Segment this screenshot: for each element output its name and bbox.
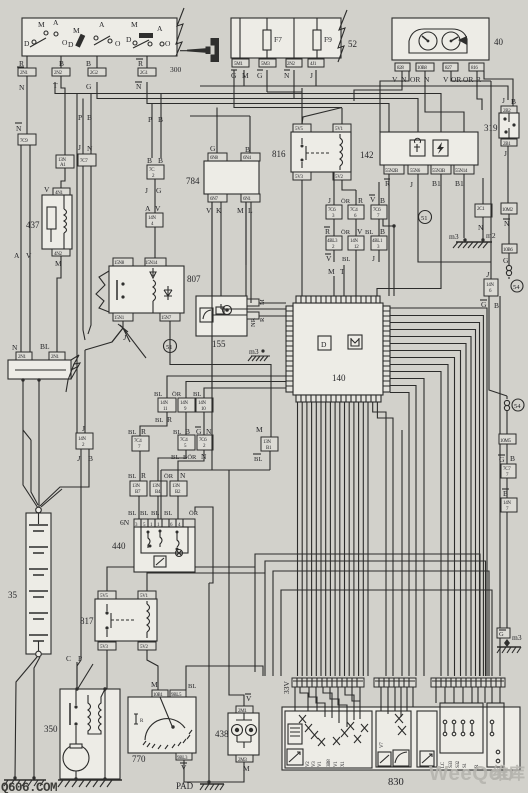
svg-text:V3: V3 [312,761,317,767]
wire P down to 7C7 [82,99,84,155]
wire fan right of 140 [390,308,487,676]
connector 13N B2 [170,481,187,496]
svg-text:B: B [147,156,152,165]
svg-text:14N: 14N [160,401,168,406]
connector 10M5 [506,410,508,434]
wire long x77 [76,94,78,434]
connector 2C1 [475,204,492,217]
svg-text:7C9: 7C9 [20,139,28,144]
svg-text:5V2: 5V2 [335,175,344,180]
wire 14N4 down to 807 [154,227,156,258]
svg-text:7C4: 7C4 [350,208,358,213]
fuse box 52 [231,18,341,58]
svg-text:4BL3: 4BL3 [327,239,338,244]
svg-text:ÖR: ÖR [172,391,182,398]
top bus wire M from fuse 5M1 [200,70,508,100]
svg-text:G: G [156,186,162,195]
svg-text:OR: OR [410,75,420,84]
svg-text:V: V [326,254,332,263]
ground G m3 right [497,628,522,653]
fuse F7 [263,30,271,50]
wires 830 row3 stubs [436,687,500,703]
wire P2 down [151,104,153,159]
svg-text:5V1: 5V1 [140,594,149,599]
wire B into 784 [249,116,251,153]
svg-text:350: 350 [44,724,58,734]
svg-text:B2: B2 [175,490,181,495]
svg-text:BL: BL [193,391,201,398]
svg-text:BL: BL [140,510,148,517]
svg-text:A: A [157,24,163,33]
svg-text:14N: 14N [148,216,156,221]
svg-text:BL: BL [128,473,136,480]
connector 5M3 [259,59,276,67]
wire cluster V down-left [354,71,402,101]
svg-text:6N: 6N [120,518,130,527]
wires 830 row1 stubs [295,687,360,727]
svg-text:BL: BL [154,391,162,398]
svg-text:R: R [141,471,146,480]
connector 14N4 [146,213,163,227]
svg-text:54: 54 [513,284,520,291]
wire B down mid [88,166,91,334]
svg-text:B: B [494,301,499,310]
svg-text:54: 54 [514,403,521,410]
ignition switch assembly 300 [22,18,177,56]
svg-text:维库: 维库 [492,763,526,783]
connector 12N2 [286,59,302,67]
wire G down right-rail [489,296,507,396]
svg-text:B: B [380,227,385,236]
svg-text:440: 440 [112,541,126,551]
svg-text:2G1: 2G1 [140,71,149,76]
svg-text:R: R [138,59,143,68]
wire 784V long down [211,202,213,470]
wire break right of 52 [338,10,347,62]
wire bundle below 140 [298,402,403,676]
svg-text:5V1: 5V1 [335,127,344,132]
connector 13N B7 [130,481,147,496]
wire C P to 350 [77,662,93,690]
top bus wire G [97,82,418,167]
svg-text:BL: BL [365,229,373,236]
wire 10M2 down [508,214,510,244]
svg-text:437: 437 [26,220,40,230]
svg-text:14N: 14N [180,401,188,406]
svg-text:55N14: 55N14 [455,169,468,174]
wire cluster V2 down [451,71,491,81]
svg-text:2C1: 2C1 [477,207,485,212]
svg-text:A1: A1 [60,163,66,168]
wire 7C2 to 14N4 [154,179,156,213]
svg-text:2B1: 2B1 [503,142,511,147]
svg-text:33V: 33V [282,681,291,695]
wire B down right-rail [499,296,501,676]
connector 7C2 [147,165,164,179]
svg-text:A: A [14,251,20,260]
connector block 830 [282,678,520,770]
svg-text:10M5: 10M5 [500,439,512,444]
wire cluster N down [380,71,409,132]
svg-text:7C6: 7C6 [328,208,336,213]
instrument cluster 40 [392,18,489,60]
svg-text:G: G [210,144,216,153]
connector 7C6b [197,435,213,450]
svg-text:5V5: 5V5 [295,127,304,132]
top bus wire N [147,82,389,167]
svg-text:2N1: 2N1 [20,71,29,76]
control unit 140 [286,296,390,402]
svg-text:35: 35 [8,590,18,600]
wire 2C1 to ground [482,217,484,240]
svg-text:R: R [167,415,172,424]
svg-text:D: D [321,340,327,349]
svg-text:F9: F9 [324,35,332,44]
switch unit 319 [484,113,519,138]
svg-text:4J1: 4J1 [310,62,317,67]
svg-text:BL: BL [164,510,172,517]
top bus wire G2 from fuse 5M3 [266,70,268,92]
ground m3 m2 [449,231,496,248]
830 tab row 3 [431,678,505,687]
svg-text:6N8: 6N8 [210,156,219,161]
wire A long left [20,145,22,360]
top bus wire T [55,82,441,167]
svg-text:J: J [310,71,313,80]
svg-text:M: M [131,20,138,29]
svg-text:ÖR: ÖR [189,510,199,517]
node 54 circle upper [511,280,523,292]
wire cluster OR down [425,71,464,132]
svg-text:J: J [328,196,331,205]
svg-text:Q606.COM: Q606.COM [1,781,57,793]
fuse F9 [313,30,321,50]
wire 14N7 down to ground [506,512,508,628]
svg-text:J: J [410,180,413,189]
ground m3 at 155 [248,347,270,361]
svg-text:6N1: 6N1 [243,197,252,202]
svg-text:B7: B7 [135,490,141,495]
svg-text:10M2: 10M2 [502,208,514,213]
component 142 [360,132,478,189]
wire fuse N to 816 [234,70,342,124]
svg-text:M: M [151,680,158,689]
svg-text:7C4: 7C4 [180,438,188,443]
svg-text:770: 770 [132,754,146,764]
wire 784 K down [220,202,222,304]
svg-text:C: C [66,654,71,663]
svg-text:A: A [53,18,59,27]
svg-text:5V5: 5V5 [100,594,109,599]
wires 13NB to 440 [139,496,178,519]
svg-text:55N3B: 55N3B [432,169,446,174]
horn / pointer icon [180,38,219,62]
svg-text:V: V [392,75,398,84]
svg-text:5M1: 5M1 [234,62,243,67]
connector 7C4b [178,435,195,450]
wire 437 to BL tab [57,256,61,353]
svg-text:2N2: 2N2 [287,62,296,67]
wire 816 5V3 down [301,180,303,296]
wire 142 R down [388,174,390,296]
830 tab row 2 [374,678,416,687]
svg-text:784: 784 [186,176,200,186]
svg-text:15N14: 15N14 [145,261,158,266]
connector 13N B4 [150,481,167,496]
connector 7C7 [78,154,96,166]
svg-text:V: V [206,206,212,215]
svg-text:BL: BL [188,683,196,690]
svg-text:10B6: 10B6 [503,248,513,253]
svg-text:14N: 14N [503,501,511,506]
svg-text:N: N [136,82,142,91]
wire B feed 784 from bus [190,115,250,117]
wires 830 row2 stubs [381,687,413,717]
wire M down to 140 [333,276,335,296]
wire 161 down to 440 [160,470,162,519]
svg-text:R: R [358,196,363,205]
node 51 circle left [164,340,177,353]
connector 14N7 [506,478,508,498]
fuel gauge sender 770 [128,680,196,772]
wire 142 B1b down to ground [463,174,465,238]
battery 35 [8,489,62,657]
svg-text:OR: OR [463,75,473,84]
svg-text:14N: 14N [78,437,86,442]
svg-text:J: J [372,254,375,263]
connector 2B1 319 [501,139,517,146]
svg-text:807: 807 [187,274,201,284]
wire 784 V down [211,202,213,388]
830 relay contacts D [440,703,483,753]
wire fuse J down [267,70,316,124]
svg-text:X1: X1 [341,761,346,767]
svg-text:816: 816 [471,66,478,71]
inline connector pair lower [506,396,508,399]
svg-text:G: G [499,631,504,638]
svg-text:140: 140 [332,373,346,383]
svg-text:142: 142 [360,150,374,160]
svg-text:V2: V2 [306,761,311,767]
wire cluster OR2 corner to 319 [477,71,482,110]
junction arrow under 807 [112,321,130,342]
wire break symbol at 300 [176,8,184,56]
wire 7C4a down [139,451,141,481]
starter motor 350 [44,687,120,779]
svg-text:ÖR: ÖR [341,229,351,236]
svg-text:V: V [246,694,252,703]
svg-text:B: B [158,156,163,165]
svg-text:14N: 14N [486,283,494,288]
svg-text:5V3: 5V3 [100,645,109,650]
svg-text:J: J [502,96,505,105]
svg-text:P: P [78,654,82,663]
wire 438 to PAD [209,762,244,782]
svg-text:N: N [87,144,93,153]
svg-text:M: M [73,26,80,35]
connector 14J1 [308,59,324,67]
connector 7C4a [132,436,149,451]
svg-text:51: 51 [166,344,173,351]
svg-text:J: J [145,186,148,195]
wire T down to 13N A1 [61,76,65,155]
svg-text:13N: 13N [132,484,140,489]
svg-text:V1: V1 [318,761,323,767]
svg-text:G: G [503,256,509,265]
svg-text:816: 816 [272,149,286,159]
svg-text:V: V [44,185,50,194]
svg-text:5M3: 5M3 [261,62,270,67]
svg-text:827: 827 [445,66,452,71]
wire 784 M down [245,202,247,265]
svg-text:BL: BL [151,510,159,517]
wire 2C1 up [482,178,484,204]
svg-text:M: M [256,425,263,434]
component 784 [186,144,260,215]
svg-text:V: V [443,75,449,84]
connector 13N A1 [56,155,74,168]
svg-text:52: 52 [348,39,357,49]
830 sub box A [285,711,372,768]
connector block row2 [326,236,342,250]
relay 817 [80,591,157,650]
svg-text:2G2: 2G2 [90,71,99,76]
svg-text:51: 51 [421,215,428,222]
svg-text:B: B [380,196,385,205]
wire J into 14N6 [490,81,492,279]
svg-text:V7: V7 [380,742,385,748]
svg-text:N: N [16,124,22,133]
connector 816b [469,63,484,71]
interior lamp 438 [215,694,259,773]
wire N into 7C9 [26,76,28,134]
830 outer box [282,707,520,770]
svg-text:13N: 13N [172,484,180,489]
svg-text:O: O [165,39,171,48]
svg-text:BL: BL [40,342,50,351]
svg-text:830: 830 [388,777,404,788]
svg-text:D: D [68,40,74,49]
svg-text:15N1: 15N1 [114,316,125,321]
svg-text:M: M [242,71,249,80]
svg-text:M: M [38,20,45,29]
connector 10M2 [501,203,517,214]
svg-text:G: G [86,82,92,91]
wire B down right of 7C7 [90,94,92,155]
connector 827 [443,63,458,71]
svg-text:BL: BL [128,429,136,436]
component 437 [26,185,72,268]
svg-text:5V2: 5V2 [140,645,149,650]
wire 440 right up OR [195,507,213,583]
relay 807 [96,258,201,321]
830 sub box B [376,711,411,767]
wire 5V1 feed [341,108,343,124]
svg-text:V: V [26,251,32,260]
wire 7C7 down [83,166,85,340]
svg-text:15N7: 15N7 [161,316,172,321]
svg-text:m3: m3 [249,347,259,356]
svg-text:ÖR: ÖR [164,473,174,480]
svg-text:BL: BL [342,256,350,263]
svg-text:B1: B1 [432,179,441,188]
svg-text:7C6: 7C6 [199,438,207,443]
connector 5M1 [232,59,249,67]
wire 770 to PAD [184,760,209,782]
wire 13NA1 to 437 [61,168,65,188]
svg-text:R: R [259,317,266,322]
svg-text:F7: F7 [274,35,282,44]
svg-text:6N7: 6N7 [210,197,219,202]
wire bus BL down [38,380,40,508]
wire V long left [29,145,31,352]
svg-text:6N4: 6N4 [243,156,252,161]
wire battery to ground left [15,657,40,778]
svg-text:14N: 14N [198,401,206,406]
svg-text:7C7: 7C7 [503,467,511,472]
wire bus mid down [31,440,38,505]
node 51 circle right [419,211,432,224]
svg-text:N: N [180,471,186,480]
svg-text:V: V [370,195,376,204]
svg-text:V1: V1 [334,761,339,767]
svg-text:P: P [78,113,82,122]
wire bus N down [23,380,38,508]
svg-text:D: D [126,35,132,44]
svg-text:13N: 13N [152,484,160,489]
svg-text:O: O [115,39,121,48]
svg-text:BL: BL [254,456,262,463]
wire into 14N2 [40,350,89,689]
svg-text:ÖR: ÖR [341,198,351,205]
svg-text:438: 438 [215,729,229,739]
svg-text:B1: B1 [455,179,464,188]
svg-text:13N: 13N [263,440,271,445]
wire 142 J down then left [418,174,491,262]
svg-text:N: N [19,83,25,92]
bridge wires over middle [107,554,492,690]
svg-text:M: M [237,206,244,215]
svg-text:7C4: 7C4 [134,439,142,444]
svg-text:2M3: 2M3 [238,758,247,763]
svg-text:2N1: 2N1 [18,355,27,360]
wire 229 long down [229,470,244,706]
svg-text:4BL1: 4BL1 [372,239,383,244]
svg-text:NR: NR [250,317,257,327]
wire from switch contacts to connectors [26,56,28,68]
svg-text:2N2: 2N2 [54,71,63,76]
ground under 350 [58,779,122,781]
svg-text:J: J [78,143,81,152]
svg-text:BL: BL [155,417,163,424]
wire 817 down to 350 [107,650,158,690]
ground bottom left [4,779,46,781]
svg-text:R: R [141,427,146,436]
sensor unit 155 [196,296,266,349]
svg-text:M: M [328,267,335,276]
svg-text:B: B [511,97,516,106]
svg-text:B: B [510,454,515,463]
connector 828 [395,63,410,71]
wire 13N B1 down to bus470 [269,451,271,470]
wire G into 784 [216,108,218,154]
connector 10B8 [416,63,434,71]
svg-text:15N8: 15N8 [114,261,125,266]
svg-text:G: G [499,455,505,464]
splice crossings in 830 A [299,715,368,746]
wire 7C6b down [178,450,204,481]
svg-text:10B8: 10B8 [417,66,427,71]
